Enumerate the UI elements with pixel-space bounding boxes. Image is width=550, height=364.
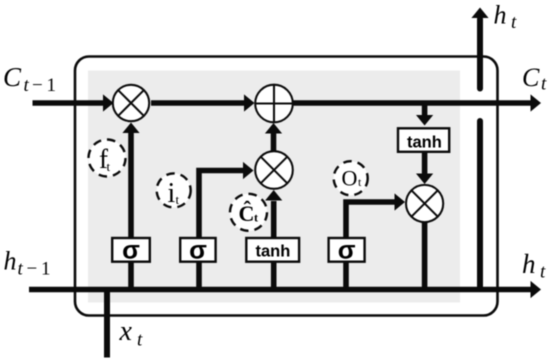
wire C mid segment xyxy=(151,94,255,111)
svg-text:C: C xyxy=(522,63,540,92)
svg-text:t: t xyxy=(137,330,143,351)
wire multiply3 down to h row xyxy=(422,222,428,290)
svg-text:σ: σ xyxy=(122,235,140,265)
wire h_t up lower segment xyxy=(477,121,483,289)
label h_t-1 xyxy=(4,247,51,280)
gate label f_t (dashed circle) xyxy=(89,140,126,177)
svg-text:t: t xyxy=(511,12,517,33)
svg-text:t: t xyxy=(24,75,30,96)
svg-text:t: t xyxy=(18,259,24,280)
wire h_t up upper segment xyxy=(471,8,488,89)
svg-text:σ: σ xyxy=(338,235,356,265)
label C_t-1 xyxy=(3,62,56,96)
wire C input line xyxy=(33,94,114,111)
svg-text:h: h xyxy=(494,1,507,30)
box tanh lower xyxy=(246,238,299,262)
wire forget gate line xyxy=(122,123,139,293)
box sigma2 xyxy=(180,235,215,265)
svg-text:tanh: tanh xyxy=(255,243,290,261)
svg-text:tanh: tanh xyxy=(407,134,442,152)
cell inner gray background xyxy=(88,71,460,303)
gate label i_t (dashed circle) xyxy=(157,173,191,209)
gate label C-hat_t (dashed circle) xyxy=(230,194,267,231)
label h_t top xyxy=(494,1,518,34)
multiply node input (circle-X) xyxy=(255,151,293,189)
add node (circle-plus) xyxy=(255,85,293,123)
wire input gate elbow xyxy=(199,162,254,292)
svg-text:−: − xyxy=(27,259,38,280)
svg-text:σ: σ xyxy=(189,235,207,265)
wire h row line xyxy=(29,281,541,298)
svg-text:t: t xyxy=(541,74,547,95)
svg-text:1: 1 xyxy=(41,259,51,280)
wire C output line xyxy=(293,94,541,111)
svg-text:1: 1 xyxy=(47,75,57,96)
gate label O_t (dashed circle) xyxy=(334,161,368,195)
svg-text:i: i xyxy=(168,178,176,209)
box sigma3 xyxy=(329,235,365,265)
svg-text:t: t xyxy=(176,192,180,207)
svg-text:−: − xyxy=(32,75,43,96)
wire output gate elbow xyxy=(346,193,405,292)
svg-text:Ĉ: Ĉ xyxy=(239,201,255,226)
box sigma1 xyxy=(112,235,150,265)
wire C to tanh branch xyxy=(416,101,433,126)
svg-text:t: t xyxy=(107,159,111,174)
svg-text:h: h xyxy=(522,249,536,279)
multiply node forget (circle-X) xyxy=(113,85,149,121)
svg-text:x: x xyxy=(119,316,133,347)
svg-text:h: h xyxy=(4,247,17,276)
wire candidate line xyxy=(265,190,282,292)
svg-text:C: C xyxy=(3,62,22,92)
svg-text:t: t xyxy=(254,211,258,225)
cell border (rounded rect) xyxy=(75,57,498,316)
svg-text:O: O xyxy=(342,166,358,191)
wire x_t input xyxy=(104,287,110,358)
label C_t xyxy=(522,63,547,95)
wire tanh to multiply3 xyxy=(416,153,433,184)
box tanh upper xyxy=(398,128,449,152)
svg-text:t: t xyxy=(540,262,546,283)
wire multiply2 to add xyxy=(265,123,282,151)
label x_t xyxy=(119,316,144,351)
label h_t right xyxy=(522,249,546,283)
multiply node output (circle-X) xyxy=(406,185,443,222)
